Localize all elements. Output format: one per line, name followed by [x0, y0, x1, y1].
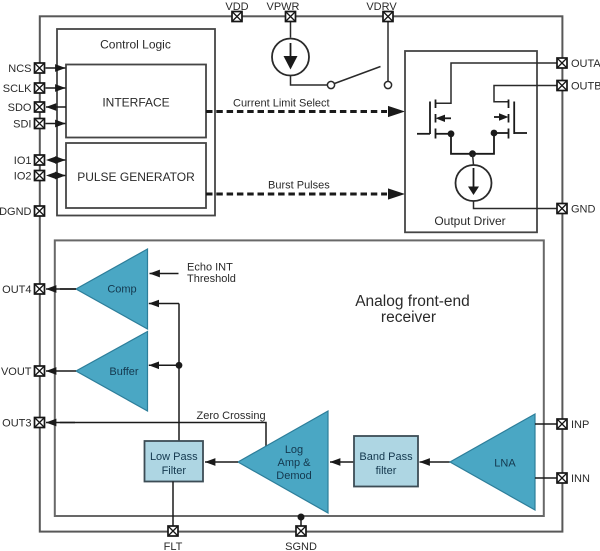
- svg-text:Threshold: Threshold: [187, 273, 236, 285]
- comp triangle U2: [76, 249, 148, 329]
- svg-text:INN: INN: [571, 473, 590, 485]
- node feedback junction: [176, 362, 183, 369]
- pulse generator box: [66, 143, 206, 208]
- transistor Q2 (right mosfet): [473, 100, 528, 154]
- svg-text:Zero Crossing: Zero Crossing: [197, 410, 266, 422]
- switch SW1 left contact: [327, 81, 334, 88]
- svg-text:GND: GND: [571, 204, 596, 216]
- svg-text:INTERFACE: INTERFACE: [102, 96, 169, 110]
- feedback vertical wire: [178, 304, 180, 442]
- pin INP: [557, 419, 567, 429]
- wire comp to OUT4: [60, 288, 76, 290]
- svg-text:DGND: DGND: [0, 206, 32, 218]
- node SGND junction: [298, 514, 305, 521]
- wire VPWR to current source: [290, 22, 292, 38]
- pin OUTB: [557, 81, 567, 91]
- analog front-end box: [55, 240, 544, 516]
- svg-text:Demod: Demod: [276, 470, 311, 482]
- svg-text:Analog front-end: Analog front-end: [355, 293, 470, 310]
- wire OUTB to Q2 drain: [494, 86, 557, 102]
- svg-text:PULSE GENERATOR: PULSE GENERATOR: [77, 170, 195, 184]
- pin INN: [557, 473, 567, 483]
- zero crossing wire to OUT3: [60, 423, 266, 447]
- pin SDO: [35, 102, 45, 112]
- svg-text:NCS: NCS: [8, 63, 31, 75]
- pin IO2: [35, 171, 45, 181]
- wire OUTA to Q1 drain: [436, 63, 557, 103]
- pin DGND: [35, 206, 45, 216]
- pin VDD: [232, 12, 242, 22]
- svg-text:SDO: SDO: [8, 102, 32, 114]
- svg-text:Current Limit Select: Current Limit Select: [233, 98, 330, 110]
- transistor Q1 (left mosfet): [417, 100, 473, 154]
- svg-text:Comp: Comp: [107, 284, 136, 296]
- svg-text:Echo INT: Echo INT: [187, 262, 233, 274]
- pin VPWR: [286, 12, 296, 22]
- wire interface to SDO: [46, 106, 66, 108]
- low pass filter box: [145, 441, 204, 482]
- wire current source to GND: [474, 201, 557, 209]
- output driver box: [405, 51, 537, 232]
- wire current source to switch: [291, 76, 328, 86]
- echo INT threshold arrow: [150, 273, 179, 275]
- svg-text:Control Logic: Control Logic: [100, 38, 171, 52]
- wire SCLK to interface: [46, 87, 66, 89]
- svg-text:VDD: VDD: [225, 1, 248, 13]
- wire low pass filter to FLT: [172, 482, 174, 527]
- current source I1: [272, 39, 309, 76]
- dashed arrow current limit select: [206, 110, 387, 113]
- svg-text:IO2: IO2: [14, 171, 32, 183]
- pin OUT4: [35, 284, 45, 294]
- LNA triangle U5: [450, 414, 535, 510]
- svg-text:OUT4: OUT4: [2, 284, 31, 296]
- svg-text:Log: Log: [285, 444, 303, 456]
- wire SDI to interface: [46, 123, 66, 125]
- svg-text:Low Pass: Low Pass: [150, 451, 198, 463]
- svg-text:Band Pass: Band Pass: [359, 451, 413, 463]
- svg-text:VOUT: VOUT: [1, 366, 32, 378]
- switch SW1 right contact: [384, 81, 391, 88]
- wire INN to LNA: [535, 477, 557, 479]
- current source I2: [456, 165, 492, 201]
- pin OUTA: [557, 58, 567, 68]
- svg-text:Output Driver: Output Driver: [434, 214, 505, 228]
- wire NCS to interface: [46, 67, 66, 69]
- wire IO1 bidirectional: [56, 159, 66, 161]
- band pass filter box: [354, 436, 418, 487]
- pin VDRV: [383, 12, 393, 22]
- pin OUT3: [35, 418, 45, 428]
- arrow LNA to band pass: [420, 461, 451, 463]
- arrow band pass to log amp: [330, 461, 354, 463]
- node source junction: [469, 150, 476, 157]
- feedback wire to comp: [149, 303, 179, 305]
- buffer triangle U3: [76, 332, 148, 412]
- feedback wire to buffer: [149, 364, 179, 366]
- interface box: [66, 65, 206, 138]
- svg-text:VDRV: VDRV: [366, 1, 397, 13]
- svg-text:Buffer: Buffer: [109, 366, 138, 378]
- svg-text:receiver: receiver: [381, 309, 436, 326]
- svg-text:OUT3: OUT3: [2, 418, 31, 430]
- pin VOUT: [35, 366, 45, 376]
- wire INP to LNA: [535, 423, 557, 425]
- dashed arrow burst pulses: [206, 193, 387, 196]
- switch SW1 blade: [335, 67, 381, 84]
- svg-text:filter: filter: [376, 465, 397, 477]
- svg-text:Burst Pulses: Burst Pulses: [268, 180, 330, 192]
- svg-text:LNA: LNA: [494, 458, 516, 470]
- svg-text:OUTA: OUTA: [571, 58, 600, 70]
- wire VDRV to switch: [387, 22, 389, 82]
- control logic box: [57, 29, 215, 216]
- svg-text:INP: INP: [571, 419, 589, 431]
- svg-text:Amp &: Amp &: [277, 457, 311, 469]
- pin SGND: [296, 526, 306, 536]
- svg-text:SDI: SDI: [13, 119, 31, 131]
- wire SGND: [300, 517, 302, 526]
- svg-text:SGND: SGND: [285, 541, 317, 551]
- pin IO1: [35, 155, 45, 165]
- pin FLT: [168, 526, 178, 536]
- wire junction to current source I2: [473, 154, 474, 165]
- wire IO2 bidirectional: [56, 175, 66, 177]
- pin SDI: [35, 119, 45, 129]
- svg-text:OUTB: OUTB: [571, 81, 600, 93]
- pin GND: [557, 204, 567, 214]
- log amp demod triangle U4: [238, 411, 328, 513]
- svg-text:SCLK: SCLK: [3, 83, 32, 95]
- svg-text:VPWR: VPWR: [267, 1, 300, 13]
- wire buffer to VOUT: [46, 370, 76, 372]
- svg-text:FLT: FLT: [164, 541, 183, 551]
- svg-text:Filter: Filter: [162, 465, 187, 477]
- arrow log amp to low pass filter: [205, 461, 238, 463]
- pin SCLK: [35, 83, 45, 93]
- svg-text:IO1: IO1: [14, 155, 32, 167]
- pin NCS: [35, 63, 45, 73]
